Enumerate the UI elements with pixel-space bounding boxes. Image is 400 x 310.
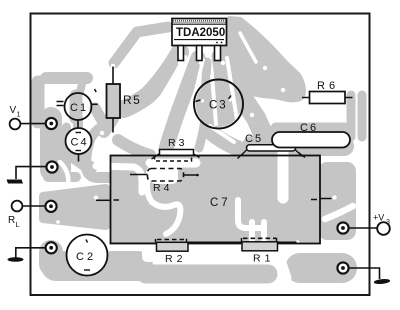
resistor R5	[107, 84, 121, 118]
svg-text:3: 3	[386, 219, 390, 226]
svg-text:R4: R4	[153, 182, 172, 194]
svg-text:C1: C1	[70, 102, 88, 114]
wire copper RL trapezoid	[43, 188, 106, 226]
resistor R3	[160, 150, 194, 156]
capacitor C7 box	[111, 156, 321, 244]
node pad 4	[46, 242, 57, 253]
resistor R2	[111, 242, 157, 244]
wire C4 bottom lead	[78, 154, 80, 162]
svg-text:C5: C5	[245, 133, 263, 145]
wire copper left elbow	[32, 82, 45, 122]
node +V3 pad	[337, 222, 348, 233]
wire copper C1 top connector	[80, 84, 82, 92]
pin 5 of U1	[215, 46, 221, 61]
capacitor C5	[247, 145, 296, 151]
svg-text:C4: C4	[71, 137, 89, 149]
svg-text:L: L	[16, 220, 20, 229]
wire copper second vertical band	[62, 127, 71, 170]
wire copper above C6	[276, 123, 344, 134]
wire +V3	[349, 227, 379, 229]
wire copper finger right	[92, 172, 112, 182]
svg-text:R5: R5	[123, 93, 141, 107]
wire copper C3-right down to C6	[244, 100, 264, 136]
svg-text:TDA2050: TDA2050	[176, 27, 225, 39]
svg-text:R2: R2	[165, 253, 186, 265]
ground left upper	[7, 180, 24, 184]
wire copper C4 right S-curve down	[86, 122, 124, 178]
drill holes	[56, 61, 336, 264]
wire copper bottom band right	[146, 265, 268, 284]
svg-text:C7: C7	[210, 197, 231, 209]
wire copper IC fan band 2	[166, 58, 198, 149]
svg-text:+V: +V	[373, 213, 384, 223]
wire V1 to pad	[20, 123, 45, 125]
svg-text:R6: R6	[317, 80, 339, 92]
resistor R6	[310, 92, 346, 104]
wire copper IC fan band 3	[199, 62, 207, 148]
wire copper IC fan band 4	[218, 56, 222, 82]
etched white channels	[60, 33, 353, 278]
wire copper IC fan band 1	[124, 52, 180, 109]
wire copper upper-right mass	[214, 16, 306, 102]
wire copper C1-C4 vertical link	[73, 118, 83, 158]
svg-text:R: R	[8, 215, 15, 226]
svg-text:V: V	[10, 105, 17, 116]
wire copper trace to R5 top	[114, 27, 168, 63]
capacitor C6	[272, 132, 350, 148]
pin 3 of U1	[197, 46, 203, 61]
resistor R1	[242, 242, 278, 251]
wire copper right finger 2	[358, 95, 367, 137]
node pad 3	[45, 201, 56, 212]
copper pour layer	[38, 16, 362, 274]
svg-text:1: 1	[17, 110, 21, 119]
svg-text:R1: R1	[253, 253, 274, 265]
op-amp U1 TDA2050 body	[172, 19, 227, 46]
capacitor C4	[66, 128, 92, 154]
svg-text:R3: R3	[168, 137, 187, 149]
wire copper pad column	[40, 118, 62, 170]
wire copper R5 bottom blob	[104, 119, 113, 132]
pin 1 of U1	[178, 46, 184, 61]
capacitor C3	[194, 80, 243, 129]
wire copper right of C1	[95, 108, 104, 124]
wire C1 to C4 lead	[77, 120, 79, 129]
resistor R4	[148, 169, 184, 182]
node +V3 terminal	[377, 222, 390, 235]
wire C7 right lead	[320, 198, 332, 200]
capacitor C2	[67, 235, 108, 276]
wire copper top-left horizontal band	[46, 72, 87, 84]
wire pad2 to ground	[16, 167, 46, 179]
node pad 1	[46, 118, 57, 129]
svg-text:C3: C3	[209, 100, 228, 112]
capacitor C1	[65, 93, 92, 120]
wire copper to R3 left lead	[118, 140, 150, 155]
PCB board outline	[31, 14, 370, 296]
node RL terminal	[12, 201, 23, 212]
ground right	[374, 278, 391, 284]
wire right ground	[349, 268, 380, 279]
node V1 input terminal	[10, 119, 21, 130]
wire copper finger left	[48, 172, 76, 182]
wire copper bottom-right pad band	[300, 253, 342, 283]
wire copper right finger 1	[347, 95, 356, 137]
wire copper under C5 C6	[252, 136, 344, 156]
wire copper behind C1	[70, 96, 83, 118]
node C3 copper underlay	[196, 81, 242, 127]
node ground pad right	[337, 262, 348, 273]
wire copper bottom band left	[56, 251, 138, 281]
wire C7 left lead	[96, 199, 111, 201]
wire pad4 to ground	[16, 248, 46, 258]
wire copper right of C7	[318, 162, 356, 240]
wire copper below C4 fill	[72, 155, 90, 168]
wire copper pad4 blob	[39, 252, 63, 264]
wire copper C7 interior	[111, 156, 321, 244]
node pad 2	[46, 161, 57, 172]
svg-text:C2: C2	[76, 251, 96, 263]
svg-text:C6: C6	[300, 122, 318, 134]
wire RL to pad	[22, 205, 45, 207]
wire copper C3 down to C5	[208, 130, 248, 152]
ground left lower	[8, 257, 24, 262]
